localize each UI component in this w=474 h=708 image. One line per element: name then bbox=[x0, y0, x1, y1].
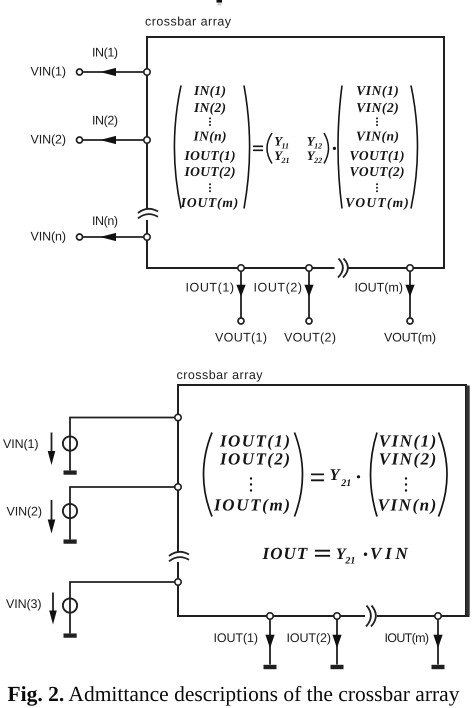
ground VIN(3) bbox=[64, 633, 77, 637]
ground VIN(2) bbox=[64, 539, 77, 543]
svg-text:22: 22 bbox=[313, 156, 322, 165]
node IOUT(m) output on box bottom bbox=[407, 265, 413, 271]
right vector paren right bbox=[411, 86, 418, 209]
svg-text:11: 11 bbox=[282, 142, 290, 151]
svg-text:VIN(2): VIN(2) bbox=[379, 450, 437, 469]
source VIN(3) circle bbox=[63, 598, 77, 612]
multiplication dot bbox=[357, 475, 360, 478]
terminal VOUT(1) bbox=[238, 318, 244, 324]
wire IOUT(m) output bbox=[409, 271, 411, 318]
svg-text:IN(2): IN(2) bbox=[92, 114, 118, 128]
svg-text:IOUT(2): IOUT(2) bbox=[219, 450, 290, 469]
IOUT vector paren right bbox=[295, 433, 303, 517]
arrow IN(2) current bbox=[100, 136, 116, 144]
node VIN(1) input on box edge bbox=[144, 69, 150, 75]
terminal VOUT(2) bbox=[306, 318, 312, 324]
ground IOUT(1) bbox=[264, 665, 277, 669]
arrow IOUT(1) current bbox=[236, 285, 245, 297]
equals sign bbox=[311, 474, 324, 480]
svg-text:21: 21 bbox=[281, 156, 290, 165]
svg-text:Y: Y bbox=[330, 465, 342, 484]
node VIN(1) on bottom box edge bbox=[175, 414, 181, 420]
wire VIN(3) source to box bbox=[70, 582, 175, 633]
svg-text:IOUT(m): IOUT(m) bbox=[180, 195, 238, 210]
ground IOUT(2) bbox=[331, 665, 344, 669]
svg-text:IN(2): IN(2) bbox=[193, 100, 226, 115]
svg-text:VIN(1): VIN(1) bbox=[356, 83, 399, 98]
wire VIN(n) input bbox=[83, 236, 145, 238]
arrow IOUT(2) current bbox=[332, 635, 341, 648]
crossbar array box (top) bbox=[147, 37, 444, 268]
VIN vector paren right bbox=[439, 433, 448, 517]
node IOUT(m) on bottom box bbox=[435, 613, 441, 619]
break symbol on bottom edge of top box bbox=[338, 259, 348, 278]
node VIN(2) on bottom box edge bbox=[175, 484, 181, 490]
break symbol on bottom edge of bottom box bbox=[366, 606, 376, 627]
svg-text:VIN(2): VIN(2) bbox=[7, 505, 43, 519]
svg-text:VOUT(2): VOUT(2) bbox=[350, 164, 405, 179]
svg-text:IOUT(m): IOUT(m) bbox=[213, 496, 290, 515]
IOUT vector paren left bbox=[204, 433, 213, 517]
svg-text:IOUT(m): IOUT(m) bbox=[355, 281, 404, 295]
wire IOUT(2) output bbox=[308, 271, 310, 318]
matrix equation (bottom box) bbox=[204, 432, 448, 517]
source VIN(1) circle bbox=[63, 436, 77, 450]
terminal VIN(n) bbox=[77, 234, 83, 240]
ground VIN(1) bbox=[64, 470, 77, 474]
svg-text:IOUT(1): IOUT(1) bbox=[219, 432, 290, 451]
svg-text:21: 21 bbox=[344, 555, 355, 566]
svg-text:VIN(1): VIN(1) bbox=[31, 65, 67, 79]
arrow VIN(2) polarity bbox=[51, 500, 53, 522]
wire VIN(1) input bbox=[83, 71, 145, 73]
left vector paren right bbox=[244, 86, 250, 209]
equals sign bbox=[253, 146, 263, 150]
source VIN(2) circle bbox=[63, 504, 77, 518]
svg-text:IN(1): IN(1) bbox=[92, 46, 118, 60]
right edge emphasis bbox=[466, 386, 469, 616]
svg-text:VIN(3): VIN(3) bbox=[6, 597, 42, 611]
svg-text:VIN(n): VIN(n) bbox=[356, 129, 399, 144]
arrow IOUT(1) current bbox=[265, 635, 274, 648]
svg-text:IOUT(1): IOUT(1) bbox=[186, 281, 235, 295]
arrow IN(1) current bbox=[100, 68, 116, 76]
svg-text:VIN(2): VIN(2) bbox=[356, 100, 399, 115]
arrow IN(n) current bbox=[100, 233, 116, 241]
break symbol on left edge of top box bbox=[138, 209, 158, 218]
node VIN(2) input on box edge bbox=[144, 137, 150, 143]
svg-text:VIN(1): VIN(1) bbox=[379, 432, 437, 451]
crossbar array box (bottom) bbox=[178, 385, 470, 616]
wire VIN(1) source to box bbox=[70, 418, 175, 471]
svg-text:crossbar array: crossbar array bbox=[177, 368, 264, 382]
svg-text:IOUT(2): IOUT(2) bbox=[184, 164, 236, 179]
svg-text:VOUT(2): VOUT(2) bbox=[284, 331, 336, 345]
svg-text:crossbar array: crossbar array bbox=[145, 15, 232, 29]
node VIN(n) input on box edge bbox=[144, 234, 150, 240]
wire VIN(2) source to box bbox=[70, 487, 175, 539]
cropped title fragment bbox=[217, 0, 223, 6]
wire IOUT(1) output bbox=[240, 271, 242, 318]
svg-text:VIN: VIN bbox=[370, 544, 408, 563]
arrow IOUT(m) current bbox=[433, 635, 442, 648]
svg-text:VOUT(1): VOUT(1) bbox=[215, 331, 267, 345]
svg-text:IOUT(1): IOUT(1) bbox=[214, 631, 259, 645]
svg-text:Fig. 2. Admittance description: Fig. 2. Admittance descriptions of the c… bbox=[8, 682, 460, 706]
matrix equation (top box) bbox=[174, 83, 417, 210]
break symbol on left edge of bottom box bbox=[169, 552, 189, 561]
node IOUT(2) on bottom box bbox=[334, 613, 340, 619]
svg-text:12: 12 bbox=[314, 142, 322, 151]
svg-text:VOUT(m): VOUT(m) bbox=[384, 331, 436, 345]
svg-text:VOUT(1): VOUT(1) bbox=[350, 148, 405, 163]
svg-text:IOUT(m): IOUT(m) bbox=[385, 631, 430, 645]
Y admittance matrix bbox=[267, 133, 272, 164]
svg-text:VIN(n): VIN(n) bbox=[378, 496, 437, 515]
svg-text:21: 21 bbox=[340, 478, 351, 489]
arrow VIN(1) polarity bbox=[51, 433, 53, 454]
svg-text:VIN(2): VIN(2) bbox=[31, 133, 67, 147]
svg-text:IN(1): IN(1) bbox=[193, 83, 226, 98]
wire IOUT(2) to ground bbox=[336, 619, 338, 664]
svg-text:IOUT(2): IOUT(2) bbox=[287, 631, 332, 645]
terminal VIN(1) bbox=[77, 69, 83, 75]
svg-text:IOUT(1): IOUT(1) bbox=[184, 148, 236, 163]
svg-text:IOUT(2): IOUT(2) bbox=[254, 281, 303, 295]
svg-text:VIN(n): VIN(n) bbox=[31, 230, 67, 244]
node VIN(3) on bottom box edge bbox=[175, 579, 181, 585]
svg-text:IN(n): IN(n) bbox=[193, 129, 227, 144]
wire IOUT(m) to ground bbox=[437, 619, 439, 664]
node IOUT(2) output on box bottom bbox=[306, 265, 312, 271]
equation IOUT = Y21 . VIN bbox=[262, 544, 409, 566]
multiplication dot bbox=[333, 147, 336, 150]
wire IOUT(1) to ground bbox=[269, 619, 271, 664]
right vector paren left bbox=[338, 86, 342, 209]
svg-text:IOUT: IOUT bbox=[262, 544, 308, 563]
ground IOUT(m) bbox=[432, 665, 445, 669]
VIN vector paren left bbox=[371, 433, 378, 517]
svg-text:IN(n): IN(n) bbox=[92, 214, 118, 228]
node IOUT(1) on bottom box bbox=[267, 613, 273, 619]
arrow IOUT(2) current bbox=[304, 285, 313, 297]
arrow IOUT(m) current bbox=[405, 285, 414, 297]
left vector paren left bbox=[174, 86, 181, 209]
node IOUT(1) output on box bottom bbox=[238, 265, 244, 271]
arrow VIN(3) polarity bbox=[52, 593, 54, 613]
svg-text:VIN(1): VIN(1) bbox=[3, 437, 39, 451]
terminal VIN(2) bbox=[77, 137, 83, 143]
wire VIN(2) input bbox=[83, 139, 145, 141]
svg-text:VOUT(m): VOUT(m) bbox=[345, 195, 409, 210]
terminal VOUT(m) bbox=[407, 318, 413, 324]
